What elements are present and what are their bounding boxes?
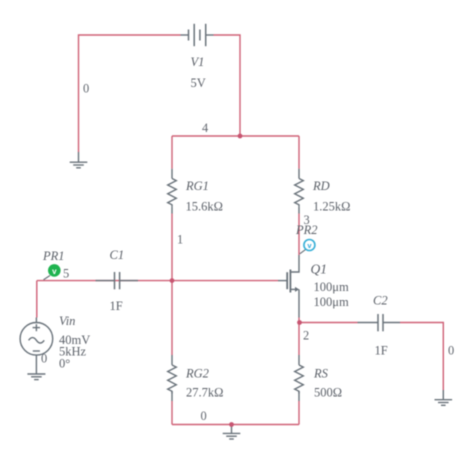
- svg-text:v: v: [52, 267, 57, 276]
- svg-text:27.7kΩ: 27.7kΩ: [186, 386, 223, 400]
- svg-text:Vin: Vin: [59, 314, 75, 328]
- svg-text:100μm: 100μm: [314, 280, 349, 294]
- svg-text:5: 5: [63, 267, 69, 281]
- svg-text:0: 0: [41, 351, 47, 365]
- svg-text:RG2: RG2: [185, 367, 209, 381]
- svg-text:1F: 1F: [375, 344, 388, 358]
- svg-text:5V: 5V: [191, 76, 206, 90]
- svg-text:4: 4: [202, 121, 208, 135]
- svg-text:0: 0: [448, 344, 454, 358]
- svg-text:100μm: 100μm: [314, 295, 349, 309]
- svg-text:PR1: PR1: [42, 249, 65, 263]
- svg-text:RD: RD: [312, 179, 330, 193]
- svg-text:2: 2: [303, 329, 309, 343]
- svg-text:C2: C2: [373, 294, 388, 308]
- svg-text:C1: C1: [110, 248, 125, 262]
- svg-text:1.25kΩ: 1.25kΩ: [313, 200, 350, 214]
- svg-text:0°: 0°: [59, 356, 70, 370]
- svg-text:RS: RS: [313, 367, 329, 381]
- svg-text:1: 1: [177, 233, 183, 247]
- svg-text:Q1: Q1: [311, 262, 328, 277]
- svg-text:15.6kΩ: 15.6kΩ: [186, 200, 223, 214]
- svg-text:500Ω: 500Ω: [314, 386, 342, 400]
- svg-text:RG1: RG1: [185, 179, 209, 193]
- svg-text:0: 0: [201, 409, 207, 423]
- svg-text:1F: 1F: [110, 299, 123, 313]
- svg-text:0: 0: [83, 82, 89, 96]
- svg-text:V1: V1: [191, 55, 205, 69]
- svg-text:PR2: PR2: [295, 223, 318, 237]
